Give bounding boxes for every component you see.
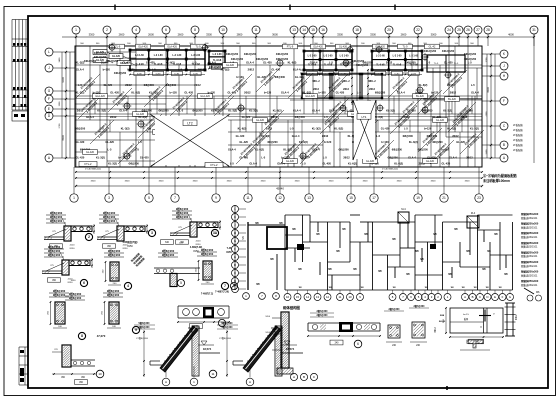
svg-text:2根8@200: 2根8@200 [162,253,175,257]
FTL-2 label right [205,163,223,168]
svg-text:图集选03G101: 图集选03G101 [521,245,538,249]
svg-text:2Φ12: 2Φ12 [386,61,393,65]
svg-text:GLA-4: GLA-4 [329,109,337,113]
slab diagonal label 24 [90,120,114,144]
svg-text:7-46: 7-46 [227,247,232,250]
svg-text:GLA-4: GLA-4 [310,61,318,65]
svg-text:GL-420: GL-420 [146,61,155,65]
svg-text:GL-420: GL-420 [86,151,95,154]
svg-text:2Φ12: 2Φ12 [198,68,205,72]
svg-text:2800: 2800 [237,33,243,37]
svg-text:GL-420: GL-420 [76,156,85,160]
slab diagonal label 1 [78,95,102,119]
svg-text:预留洞250x300: 预留洞250x300 [521,222,539,226]
svg-text:3300: 3300 [329,181,335,183]
svg-text:4Φ12@200: 4Φ12@200 [244,53,257,56]
svg-text:FTL-2: FTL-2 [211,163,218,167]
slab diagonal label 11 [324,74,348,98]
svg-text:D: D [486,295,488,299]
detail section 4 marker [124,282,131,289]
slab diagonal label 10 [320,110,344,134]
svg-text:15: 15 [311,28,315,32]
svg-text:C: C [234,271,236,275]
svg-text:KL-6(2): KL-6(2) [299,140,308,144]
svg-text:2Φ12: 2Φ12 [248,68,255,72]
svg-text:2根8@200: 2根8@200 [48,245,61,249]
slab plan detail 2-2 [450,308,503,333]
svg-text:GL-420: GL-420 [122,61,131,65]
svg-text:2600: 2600 [119,33,125,37]
svg-text:KL-3(2): KL-3(2) [76,91,85,95]
svg-text:B: B [303,375,305,379]
top axis bubble 26 [464,26,472,34]
slab diagonal label 16 [443,70,467,94]
svg-text:GL-426: GL-426 [339,46,348,49]
svg-text:GL-426: GL-426 [366,160,375,163]
svg-text:图集选03G101: 图集选03G101 [521,254,538,258]
slab diagonal label 18 [460,130,484,154]
svg-text:LT板配筋: LT板配筋 [513,133,523,137]
svg-text:3300: 3300 [125,181,131,183]
svg-text:3300: 3300 [295,181,301,183]
svg-text:KL-6(2): KL-6(2) [255,148,264,152]
svg-text:L-5: L-5 [147,127,151,131]
svg-text:L-5: L-5 [78,83,82,87]
svg-text:GLA-4: GLA-4 [312,109,320,113]
svg-text:b=120: b=120 [301,156,309,160]
svg-text:Φ8@200: Φ8@200 [432,140,443,144]
svg-text:GL-420: GL-420 [226,64,235,67]
svg-text:3300: 3300 [159,181,165,183]
top axis bubble 8 [191,26,199,34]
svg-text:TL-5: TL-5 [434,63,439,65]
svg-text:KL-3(2): KL-3(2) [312,127,321,131]
svg-text:3300: 3300 [193,181,199,183]
svg-text:b=120: b=120 [236,75,244,79]
svg-text:4Φ12@200: 4Φ12@200 [94,56,107,59]
svg-text:Φ8@200: Φ8@200 [144,83,155,87]
svg-text:47,070: 47,070 [97,334,106,338]
svg-text:GLA-4: GLA-4 [228,148,236,152]
svg-text:TL-5: TL-5 [454,63,459,65]
svg-text:21: 21 [442,196,446,200]
svg-text:L-3 1-60: L-3 1-60 [172,55,182,57]
svg-text:KL-6(2): KL-6(2) [394,162,403,166]
svg-text:11: 11 [246,196,250,200]
svg-text:Φ8@200: Φ8@200 [418,148,429,152]
slab diagonal label 30 [76,74,100,98]
masonry dark node [297,244,304,250]
svg-text:FTL-2: FTL-2 [85,162,92,166]
svg-text:3300: 3300 [89,33,95,37]
svg-text:L-5: L-5 [193,61,197,65]
svg-text:E: E [234,255,236,259]
svg-text:A: A [249,380,251,384]
svg-text:图集选03G101: 图集选03G101 [521,216,538,220]
svg-text:16: 16 [321,28,325,32]
stair shaft LT2 opening [155,116,228,165]
svg-text:C: C [479,295,481,299]
svg-text:3300: 3300 [370,33,376,37]
slab diagonal label 8 [260,110,284,134]
svg-text:TL-9 b8: TL-9 b8 [393,64,402,66]
svg-text:GLA-4: GLA-4 [408,156,416,160]
svg-text:L-3 1-60: L-3 1-60 [308,56,318,58]
svg-text:KL-3(2): KL-3(2) [221,68,230,72]
svg-text:4120: 4120 [196,241,202,243]
svg-text:GL-420: GL-420 [239,140,248,144]
svg-text:4Φ12@200: 4Φ12@200 [114,72,127,75]
svg-text:2根8@200: 2根8@200 [176,211,189,215]
svg-text:LT1: LT1 [362,115,367,119]
foundation wall bubbles [290,373,297,380]
bottom axis bubble 11 [244,194,252,202]
svg-text:Φ8@200: Φ8@200 [375,91,386,95]
svg-text:7: 7 [224,284,226,288]
FTL-2 label left [79,162,97,167]
top band crosshair circles [109,45,114,50]
svg-text:b=120: b=120 [318,91,326,95]
svg-text:3Ф12: 3Ф12 [434,326,437,332]
svg-text:19: 19 [416,196,420,200]
detail section 5 marker [177,279,184,286]
svg-text:2根8@200: 2根8@200 [50,215,63,219]
svg-text:2根8@200: 2根8@200 [107,289,120,293]
svg-text:2Φ12: 2Φ12 [452,134,459,138]
svg-text:4200: 4200 [62,77,65,83]
svg-text:4: 4 [127,284,129,288]
svg-text:GL-420: GL-420 [242,115,251,119]
svg-text:3300: 3300 [337,33,343,37]
svg-text:KL-3(2): KL-3(2) [149,91,158,95]
stair core cluster C [304,51,352,70]
svg-text:GL-420: GL-420 [105,140,114,144]
legend slash mark [524,288,534,294]
svg-text:GL-420: GL-420 [110,91,119,95]
svg-text:L-5: L-5 [329,61,333,65]
svg-text:GLA-4: GLA-4 [101,61,109,65]
top band boxed labels [110,44,125,49]
svg-text:2Φ12: 2Φ12 [450,91,457,95]
svg-text:L-3 1-60: L-3 1-60 [191,55,201,57]
svg-text:3300: 3300 [363,181,369,183]
svg-text:1: 1 [75,28,77,32]
plan extra cell dividers [94,96,96,114]
slab diagonal label 28 [418,128,442,152]
svg-text:ZT-4DYA66-2(2): ZT-4DYA66-2(2) [382,168,398,171]
svg-text:10: 10 [98,372,102,376]
svg-text:b=120: b=120 [170,91,178,95]
svg-text:6: 6 [83,281,85,285]
svg-text:5: 5 [148,196,150,200]
svg-text:7-4687(7.2): 7-4687(7.2) [201,293,214,296]
svg-text:1M: 1M [473,287,476,289]
svg-text:GLA-426: GLA-426 [305,95,315,98]
svg-text:L-3 1-60: L-3 1-60 [393,56,403,58]
svg-text:b=1.5: b=1.5 [463,314,469,316]
svg-text:FTL-9: FTL-9 [287,46,294,49]
svg-text:12: 12 [326,295,330,299]
plan bottom dimension lines [75,171,482,173]
svg-text:L-5: L-5 [178,68,182,72]
svg-text:10: 10 [348,295,352,299]
masonry wall plan [284,215,286,290]
slab plan sub-detail [467,340,483,348]
bottom axis bubble 9 [212,194,220,202]
svg-text:Φ8@200: Φ8@200 [427,134,438,138]
svg-text:B: B [472,295,474,299]
svg-text:L-3 1-60: L-3 1-60 [376,56,386,58]
svg-text:26: 26 [466,28,470,32]
plan horizontal beam lines [75,64,482,66]
svg-text:L-3 1-60: L-3 1-60 [324,56,334,58]
svg-text:KL-6(2): KL-6(2) [273,109,282,113]
slab diagonal label 7 [256,68,280,92]
top border centering marks [114,5,116,11]
top axis bubble 18 [353,26,361,34]
svg-text:LT板配筋: LT板配筋 [513,123,523,127]
svg-text:图集选03G101: 图集选03G101 [521,225,538,229]
masonry lintel square 2 [467,216,479,228]
svg-text:LT板配筋: LT板配筋 [513,128,523,132]
svg-text:KL-3(2): KL-3(2) [96,156,105,160]
svg-text:L-3 1-60: L-3 1-60 [135,55,145,57]
svg-text:2Φ12: 2Φ12 [404,115,411,119]
bottom axis bubble 17 [370,194,378,202]
svg-text:F: F [48,97,50,101]
top axis bubble 20 [385,26,393,34]
svg-text:7-4687(7.29): 7-4687(7.29) [215,291,229,294]
detail section 9 marker [132,326,139,333]
svg-text:GL-420: GL-420 [442,162,451,166]
svg-text:1: 1 [73,196,75,200]
svg-text:GL-420: GL-420 [286,160,295,163]
svg-text:M-4: M-4 [471,212,476,215]
svg-text:3300: 3300 [431,181,437,183]
stairwell flank markers [340,105,346,111]
column elevation ladder [506,303,508,336]
right axis bubble J [500,62,508,70]
svg-text:GL-420: GL-420 [257,75,266,79]
detail section 2 marker [85,233,92,240]
svg-text:6: 6 [357,342,359,346]
svg-text:2Φ12: 2Φ12 [461,115,468,119]
svg-text:L-5: L-5 [324,115,328,119]
svg-text:31: 31 [532,28,536,32]
slab diagonal label 19 [118,140,142,164]
svg-text:1M: 1M [498,287,501,289]
svg-text:1M: 1M [360,287,363,289]
svg-text:TL-9 b8: TL-9 b8 [308,64,317,66]
stair core cluster D [372,51,422,70]
svg-text:7: 7 [174,196,176,200]
svg-text:D: D [234,263,236,267]
svg-text:2根8@200: 2根8@200 [176,215,189,219]
svg-text:GL-420: GL-420 [236,134,245,138]
detail section 6 marker [80,279,87,286]
svg-text:2600: 2600 [148,33,154,37]
detail section 3 marker [148,229,155,236]
svg-text:GLA-4: GLA-4 [281,91,289,95]
svg-text:GL-420: GL-420 [322,162,331,166]
svg-text:3600: 3600 [272,33,278,37]
svg-text:10: 10 [221,28,225,32]
slab diagonal label 26 [236,140,260,164]
svg-text:F: F [503,99,505,103]
svg-text:2根8@200: 2根8@200 [201,248,214,252]
svg-text:GLA-420: GLA-420 [138,46,148,49]
bottom axis bubble 3 [105,194,113,202]
plan detail markers [124,103,130,109]
svg-text:KL-3(2): KL-3(2) [121,127,130,131]
slab diagonal label 21 [280,140,304,164]
svg-text:F: F [234,247,236,251]
svg-text:2根8@200: 2根8@200 [162,249,175,253]
svg-text:GLA-420: GLA-420 [200,95,210,98]
svg-text:GL-420: GL-420 [381,127,390,131]
svg-text:b=120: b=120 [324,140,332,144]
svg-text:L-5: L-5 [404,127,408,131]
svg-text:L: L [48,50,50,54]
svg-text:TL-9 b8: TL-9 b8 [324,64,333,66]
svg-text:2Φ12: 2Φ12 [266,127,273,131]
svg-text:BL-420: BL-420 [448,98,456,101]
svg-text:GL-420: GL-420 [444,61,453,65]
svg-text:GL-420: GL-420 [263,61,272,65]
svg-text:2Φ12: 2Φ12 [271,115,278,119]
svg-text:GL-420: GL-420 [103,83,112,87]
stair core cluster A [130,50,205,70]
svg-text:13: 13 [307,196,311,200]
svg-text:未注明板厚100mm: 未注明板厚100mm [482,178,510,183]
svg-text:GL-420: GL-420 [426,160,435,163]
svg-text:2根8@200: 2根8@200 [103,211,116,215]
stair core cluster E [427,55,465,72]
right axis bubble C [500,122,508,130]
svg-text:GL-42: GL-42 [429,46,436,49]
svg-text:2根8@200: 2根8@200 [108,253,121,257]
svg-text:图集选03G101: 图集选03G101 [521,264,538,268]
svg-text:b=120: b=120 [118,156,126,160]
svg-text:Φ6@2: Φ6@2 [439,320,446,323]
svg-text:KL-3(2): KL-3(2) [108,162,117,166]
svg-text:B: B [234,279,236,283]
svg-text:H: H [234,231,236,235]
svg-text:L-5: L-5 [426,61,430,65]
svg-text:14: 14 [302,28,306,32]
svg-text:GLA-420: GLA-420 [95,95,105,98]
slab diagonal label 3 [138,114,162,138]
svg-text:预留洞250x300: 预留洞250x300 [521,231,539,235]
svg-text:GL-426: GL-426 [136,113,145,116]
svg-text:2Φ12: 2Φ12 [466,156,473,160]
plan interior dim ticks [351,69,353,71]
svg-text:GLA-4: GLA-4 [293,68,301,72]
svg-text:LT板配筋: LT板配筋 [513,143,523,147]
svg-text:L-5: L-5 [323,156,327,160]
svg-text:23: 23 [477,196,481,200]
stair section 12 [243,326,281,372]
svg-text:2根8@200: 2根8@200 [53,293,66,297]
svg-text:16: 16 [286,295,290,299]
svg-text:LT2: LT2 [187,121,192,125]
svg-text:8150: 8150 [127,245,133,248]
right axis bubble K [500,50,508,58]
left axis bubble J [45,64,53,72]
left axis bubble G [45,87,53,95]
slab diagonal label 25 [144,83,168,107]
masonry row axis bubble chain [234,205,236,290]
svg-text:15: 15 [349,196,353,200]
svg-text:L-5: L-5 [471,83,475,87]
svg-text:TL-9: TL-9 [196,46,202,49]
svg-text:18,574: 18,574 [203,347,212,351]
stair well LT2 cross [150,114,230,167]
svg-text:Φ8@200: Φ8@200 [75,127,86,131]
svg-text:图集选03G101: 图集选03G101 [521,235,538,239]
svg-text:3300: 3300 [261,181,267,183]
left axis bubble E [45,105,53,113]
svg-text:4Φ12@200: 4Φ12@200 [424,50,437,53]
svg-text:Φ8@200: Φ8@200 [192,109,203,113]
svg-text:2根8@200: 2根8@200 [201,252,214,256]
bottom axis bubble 19 [414,194,422,202]
top axis bubble 10 [219,26,227,34]
svg-text:L-3 1-60: L-3 1-60 [409,56,419,58]
svg-text:TL-9: TL-9 [403,46,409,49]
top axis bubble 14 [300,26,308,34]
top axis bubble 27 [474,26,482,34]
top axis bubble 31 [530,26,538,34]
svg-text:b=120: b=120 [381,140,389,144]
left strip lower box [12,111,28,121]
svg-text:4Ф12: 4Ф12 [515,314,518,320]
slab diagonal label 22 [370,140,394,164]
svg-text:F: F [502,295,504,299]
svg-text:BL-420: BL-420 [416,95,424,98]
detail section 10 marker [96,370,104,378]
svg-text:图集选03G101: 图集选03G101 [521,283,538,287]
detail section 7 marker [221,282,228,289]
svg-text:GLA-4: GLA-4 [292,134,300,138]
svg-text:GL-420: GL-420 [184,91,193,95]
right dimension lines [486,54,488,158]
top axis bubble 22 [414,26,422,34]
svg-text:28: 28 [486,28,490,32]
plan partial horizontal lines [100,51,136,53]
svg-text:4000: 4000 [508,33,514,37]
masonry plan axis bubbles [284,294,291,301]
svg-text:KL-6(2): KL-6(2) [288,61,297,65]
detail section 7 second marker [230,282,237,289]
bottom axis bubble 21 [440,194,448,202]
top axis bubble 25 [455,26,463,34]
stair section 11 [160,326,198,372]
svg-text:WKL-2: WKL-2 [312,81,320,83]
svg-text:KL-3(2): KL-3(2) [470,127,479,131]
svg-text:27: 27 [476,28,480,32]
axis 31 long leader [533,34,535,163]
left axis bubble L [45,48,53,56]
svg-text:L-5: L-5 [230,162,234,166]
svg-text:11: 11 [211,372,214,376]
detail section 8 marker [78,332,85,339]
svg-text:LT板配筋: LT板配筋 [513,138,523,142]
top axis bubble 4 [132,26,140,34]
svg-text:GL-420: GL-420 [336,91,345,95]
svg-text:KL-6(2): KL-6(2) [447,127,456,131]
svg-text:2根8@200: 2根8@200 [50,211,63,215]
